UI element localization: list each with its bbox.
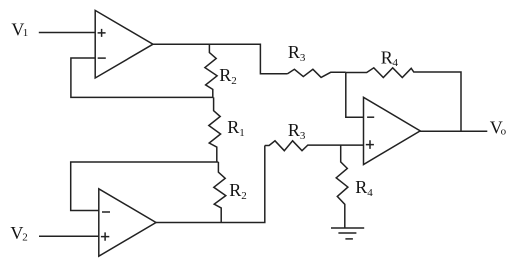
svg-text:2: 2 bbox=[241, 190, 247, 202]
svg-text:4: 4 bbox=[367, 187, 373, 199]
svg-text:R: R bbox=[355, 177, 367, 197]
label R2 (top) bbox=[219, 65, 237, 87]
node V2 label bbox=[10, 223, 27, 244]
node V1 label bbox=[11, 19, 28, 39]
resistor R2 (top) bbox=[205, 44, 217, 97]
resistor R3 (top) bbox=[288, 69, 346, 77]
op-amp U2 bbox=[99, 189, 156, 256]
op-amp U1 bbox=[95, 10, 153, 78]
svg-text:R: R bbox=[219, 65, 231, 85]
svg-text:2: 2 bbox=[22, 232, 28, 244]
svg-text:R: R bbox=[229, 180, 241, 200]
svg-text:R: R bbox=[227, 117, 239, 137]
wire junction to U3 - input bbox=[346, 73, 364, 118]
resistor R4 (bottom) bbox=[336, 146, 348, 229]
svg-text:R: R bbox=[288, 42, 300, 62]
svg-text:2: 2 bbox=[231, 75, 237, 87]
resistor R2 (bottom) bbox=[214, 162, 226, 223]
ground bbox=[331, 228, 364, 239]
node Vo label bbox=[490, 118, 507, 138]
svg-text:o: o bbox=[501, 125, 507, 137]
wire U3 output to Vo bbox=[420, 130, 487, 132]
svg-text:1: 1 bbox=[239, 127, 245, 139]
wire U1 - input feedback to node A bbox=[71, 58, 214, 97]
resistor R1 bbox=[209, 97, 221, 162]
wire U2 output to R3 bottom row bbox=[156, 146, 265, 223]
resistor R3 (bottom) bbox=[265, 141, 364, 151]
label R1 bbox=[227, 117, 245, 139]
svg-text:R: R bbox=[381, 47, 393, 67]
svg-text:3: 3 bbox=[300, 52, 306, 64]
op-amp U3 bbox=[364, 97, 421, 164]
wire V1 to U1 + input bbox=[39, 32, 95, 34]
wire U1 output to R3 top row bbox=[153, 44, 288, 73]
label R3 (bottom) bbox=[288, 120, 306, 142]
svg-text:4: 4 bbox=[393, 57, 399, 69]
label R2 (bottom) bbox=[229, 180, 247, 202]
label R4 (top) bbox=[381, 47, 399, 69]
svg-text:R: R bbox=[288, 120, 300, 140]
label R4 (bottom) bbox=[355, 177, 373, 199]
svg-text:1: 1 bbox=[23, 27, 29, 39]
svg-text:3: 3 bbox=[300, 130, 306, 142]
wire V2 to U2 + input bbox=[39, 235, 99, 237]
wire node B to U2 - input feedback bbox=[71, 162, 219, 211]
resistor R4 (top) bbox=[346, 68, 461, 131]
label R3 (top) bbox=[288, 42, 306, 64]
